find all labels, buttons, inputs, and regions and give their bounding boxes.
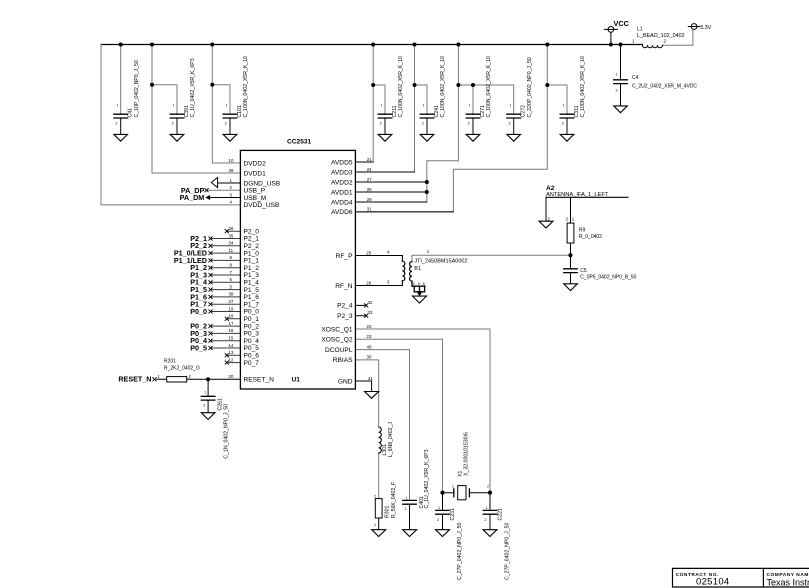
- svg-text:RESET_N: RESET_N: [118, 375, 151, 384]
- svg-text:P1_3: P1_3: [244, 272, 260, 279]
- wire AVDD6 net (rail to pin 31): [355, 45, 547, 212]
- ground C241: [420, 134, 434, 141]
- balun B1 left winding: [402, 261, 404, 281]
- svg-text:1: 1: [204, 391, 206, 395]
- svg-text:R_2K2_0402_G: R_2K2_0402_G: [164, 365, 200, 371]
- svg-text:025104: 025104: [696, 577, 730, 588]
- cap pin numbers top row: [116, 104, 565, 126]
- svg-text:L_6N8_0402_J: L_6N8_0402_J: [388, 422, 394, 458]
- ground C101: [223, 134, 237, 141]
- x-flag P0_1: [225, 317, 228, 320]
- svg-text:1: 1: [117, 104, 119, 108]
- svg-text:28: 28: [367, 187, 372, 192]
- svg-text:1: 1: [173, 104, 175, 108]
- svg-text:P2_3: P2_3: [337, 313, 353, 320]
- ground R301: [372, 530, 386, 537]
- svg-text:C241: C241: [434, 105, 440, 118]
- svg-text:P1_5: P1_5: [244, 287, 260, 294]
- R301 pin numbers: [374, 495, 376, 528]
- svg-text:USB_P: USB_P: [244, 188, 266, 195]
- wire C241 tap: [415, 85, 428, 114]
- svg-text:C_2U2_0402_X5R_M_4VDC: C_2U2_0402_X5R_M_4VDC: [632, 84, 697, 90]
- U1 left pin numbers: [229, 158, 234, 379]
- svg-text:2: 2: [468, 122, 470, 126]
- svg-text:C_1N_0402_NP0_J_50: C_1N_0402_NP0_J_50: [224, 404, 230, 459]
- ground U1 GND pin: [365, 392, 379, 399]
- svg-text:VCC: VCC: [614, 19, 630, 28]
- svg-text:30: 30: [367, 355, 372, 360]
- U1 right pin names: [321, 159, 353, 385]
- svg-text:11: 11: [229, 248, 234, 253]
- resistor R301: [375, 499, 382, 518]
- svg-text:1: 1: [510, 104, 512, 108]
- svg-text:PA_DM: PA_DM: [180, 193, 205, 202]
- svg-text:R301: R301: [385, 505, 391, 518]
- svg-text:R201: R201: [164, 358, 176, 364]
- ground C231: [436, 530, 450, 537]
- svg-text:1: 1: [381, 104, 383, 108]
- svg-text:X_32.000101530I6: X_32.000101530I6: [464, 432, 470, 476]
- svg-text:19: 19: [229, 306, 234, 311]
- svg-text:C_100N_0402_X5R_K_10: C_100N_0402_X5R_K_10: [486, 56, 492, 118]
- ground balun: [413, 296, 427, 303]
- svg-text:DVDD2: DVDD2: [244, 160, 267, 167]
- capacitor C101 plates: [223, 114, 237, 118]
- svg-text:C5: C5: [580, 268, 587, 274]
- svg-text:2: 2: [380, 122, 382, 126]
- capacitor C241 plates: [420, 114, 434, 118]
- svg-text:2: 2: [225, 122, 227, 126]
- wire AVDD2/AVDD1/AVDD4 net (rail to pins 27,28,29): [355, 45, 458, 203]
- wire C101 tap: [212, 85, 230, 115]
- svg-text:GND: GND: [338, 378, 353, 385]
- wire DVDD2 net (rail to pin 10): [212, 45, 240, 164]
- svg-text:2: 2: [616, 89, 618, 93]
- svg-text:DVDD_USB: DVDD_USB: [244, 202, 281, 209]
- svg-text:12: 12: [229, 357, 234, 362]
- capacitor C41 plates: [114, 114, 128, 118]
- svg-text:P0_7: P0_7: [244, 360, 260, 367]
- svg-text:R_56K_0402_F: R_56K_0402_F: [391, 482, 397, 518]
- svg-text:5: 5: [418, 282, 420, 286]
- wire DVDD1 net (rail to pin 39): [152, 45, 240, 174]
- svg-text:1: 1: [486, 506, 488, 510]
- svg-text:C221: C221: [498, 508, 504, 521]
- wire C261 stem: [207, 379, 209, 396]
- balun B1 right winding: [410, 262, 412, 282]
- port triangle DGND_USB: [211, 177, 217, 187]
- junction dot RESET_N: [206, 377, 210, 381]
- junction dots cap taps: [150, 83, 549, 87]
- balun B1 ground comb (pins 2,5,6): [412, 281, 425, 296]
- svg-text:RESET_N: RESET_N: [244, 377, 275, 384]
- svg-text:18: 18: [229, 314, 234, 319]
- svg-text:JTI_2450BM15A0002: JTI_2450BM15A0002: [414, 258, 467, 264]
- IC U1 CC2531 body: [240, 150, 355, 389]
- ground C221: [483, 530, 497, 537]
- svg-text:1: 1: [374, 523, 376, 527]
- svg-text:P0_5: P0_5: [190, 343, 207, 352]
- wire A2 pin 2 to ground: [545, 197, 547, 221]
- C261 pin numbers: [203, 391, 206, 408]
- svg-text:CC2531: CC2531: [287, 139, 312, 146]
- wire RF_N to balun: [355, 281, 402, 286]
- title block frame: [673, 568, 809, 587]
- crystal X1 plates: [454, 489, 470, 497]
- wire XOSC_Q2 net: [355, 339, 442, 492]
- wire C4 stem: [620, 45, 622, 80]
- svg-text:27: 27: [367, 177, 372, 182]
- C231 pin numbers: [437, 506, 440, 522]
- svg-text:2: 2: [203, 404, 205, 408]
- wire PA_DM net (to pin 3 USB_M): [210, 197, 241, 199]
- X1 pin numbers: [452, 485, 489, 489]
- capacitor C272 plates: [507, 114, 521, 118]
- svg-text:C272: C272: [521, 105, 527, 118]
- junction balun comb: [418, 291, 422, 295]
- balun pin numbers: [387, 249, 430, 285]
- svg-text:ANTENNA_IFA_1_LEFT: ANTENNA_IFA_1_LEFT: [546, 192, 609, 198]
- svg-text:R_0_0402: R_0_0402: [579, 234, 602, 240]
- junction dots AVDD stair: [425, 180, 429, 194]
- svg-text:1: 1: [452, 485, 454, 489]
- ground C5: [564, 284, 578, 291]
- ground C261: [201, 413, 215, 420]
- wire RBIAS net: [355, 360, 378, 427]
- svg-text:14: 14: [229, 343, 234, 348]
- capacitor C231 plates: [436, 510, 450, 514]
- svg-text:1: 1: [438, 506, 440, 510]
- wire C271 C272 tap: [458, 85, 513, 114]
- C4 pin numbers: [616, 73, 618, 93]
- wire R301 to ground: [378, 518, 380, 530]
- wire RF_P to balun: [355, 256, 402, 262]
- wire C311 tap: [547, 85, 567, 114]
- capacitor C401 plates: [403, 500, 417, 504]
- U1 left pin names: [244, 160, 281, 383]
- svg-text:2: 2: [509, 122, 511, 126]
- svg-text:P0_0: P0_0: [190, 307, 207, 316]
- U1 left pin stubs: [211, 231, 241, 362]
- U1 right pin stubs (AVDD group): [355, 162, 453, 212]
- wire C231 to ground: [442, 514, 444, 530]
- resistor R9: [567, 223, 574, 243]
- svg-text:P2_0: P2_0: [244, 228, 260, 235]
- balun comb pin numbers 2 5 6: [413, 282, 425, 286]
- wire L1 to 3.3V node: [663, 29, 693, 45]
- svg-text:C231: C231: [450, 508, 456, 521]
- svg-text:24: 24: [367, 167, 372, 172]
- svg-text:C311: C311: [574, 105, 580, 117]
- svg-text:15: 15: [229, 336, 234, 341]
- U1 right pin stubs P2_4 P2_3: [355, 305, 366, 315]
- svg-text:C_220P_0402_NP0_J_50: C_220P_0402_NP0_J_50: [527, 57, 533, 117]
- capacitor C391 plates: [170, 114, 184, 118]
- svg-text:C_27P_0402_NP0_J_50: C_27P_0402_NP0_J_50: [505, 522, 511, 580]
- capacitor C311 plates: [560, 114, 574, 118]
- resistor R201: [167, 377, 187, 382]
- svg-text:XOSC_Q1: XOSC_Q1: [321, 326, 352, 333]
- svg-text:C_100N_0402_X5R_K_10: C_100N_0402_X5R_K_10: [398, 56, 404, 118]
- wire DCOUPL net: [355, 350, 409, 501]
- wire R9 to C5 node: [570, 243, 572, 269]
- wire AVDD3 net (rail to pin 24): [355, 45, 414, 173]
- svg-text:34: 34: [229, 241, 234, 246]
- svg-text:21: 21: [367, 157, 372, 162]
- wire RBIAS L301 to R301: [378, 453, 380, 499]
- svg-text:1: 1: [226, 104, 228, 108]
- junction dot antenna node: [568, 253, 572, 257]
- svg-text:U1: U1: [292, 376, 301, 383]
- capacitor C211 plates: [378, 114, 392, 118]
- ground C391: [170, 134, 184, 141]
- wire GND pin 41: [355, 381, 371, 392]
- svg-text:2: 2: [487, 485, 489, 489]
- svg-text:P0_0: P0_0: [244, 309, 260, 316]
- wire C261 to ground: [207, 400, 209, 413]
- ground C311: [560, 134, 574, 141]
- C401 pin numbers: [405, 497, 408, 512]
- U1 right pin numbers: [366, 157, 373, 381]
- svg-text:10: 10: [229, 158, 234, 163]
- L1 pin numbers: [632, 39, 667, 44]
- svg-text:38: 38: [229, 292, 234, 297]
- svg-text:P1_7: P1_7: [244, 301, 260, 308]
- wire RESET_N net: [157, 378, 241, 380]
- svg-text:C_1U_0402_X5R_K_6P3: C_1U_0402_X5R_K_6P3: [424, 449, 430, 508]
- svg-text:X1: X1: [458, 471, 464, 477]
- svg-text:C_27P_0402_NP0_J_50: C_27P_0402_NP0_J_50: [457, 522, 463, 580]
- wire C221 to ground: [489, 514, 491, 530]
- wire C211 tap: [373, 85, 385, 114]
- x-flag P2_0: [225, 230, 228, 233]
- svg-text:P1_4: P1_4: [244, 280, 260, 287]
- svg-text:AVDD6: AVDD6: [331, 209, 353, 216]
- wire DVDD_USB net (rail to pin 4): [101, 45, 240, 205]
- svg-text:C41: C41: [128, 108, 134, 118]
- svg-text:C_100N_0402_X5R_K_10: C_100N_0402_X5R_K_10: [243, 56, 249, 118]
- svg-text:C211: C211: [392, 105, 398, 117]
- svg-text:1: 1: [423, 104, 425, 108]
- wire AVDD1 pin 28 stub: [355, 191, 426, 193]
- capacitor C4 plates: [614, 80, 628, 84]
- svg-text:6: 6: [423, 282, 425, 286]
- svg-text:C_1U_0402_X5R_K_6P3: C_1U_0402_X5R_K_6P3: [190, 58, 196, 117]
- x-flags left labeled pins: [209, 237, 212, 350]
- inductor L301: [379, 427, 382, 453]
- ground C41: [114, 134, 128, 141]
- wire DGND_USB port stub (pin 1): [218, 182, 241, 184]
- svg-text:3.3V: 3.3V: [700, 25, 712, 31]
- net labels left externals: [174, 234, 207, 353]
- svg-text:C_0P5_0402_NP0_B_50: C_0P5_0402_NP0_B_50: [580, 274, 636, 280]
- inductor L1: [643, 45, 663, 48]
- wire antenna feed drop (A2 pin 1 to R9): [570, 197, 572, 223]
- ground C4: [614, 106, 628, 113]
- capacitor C261 plates: [201, 396, 215, 400]
- svg-text:C391: C391: [184, 105, 190, 118]
- svg-text:22: 22: [367, 324, 372, 329]
- svg-text:26: 26: [366, 280, 371, 285]
- wire crystal left to C231: [443, 493, 454, 511]
- svg-text:33: 33: [368, 310, 373, 315]
- svg-text:2: 2: [485, 518, 487, 522]
- wire VCC symbol stem: [610, 32, 612, 44]
- svg-text:1: 1: [469, 104, 471, 108]
- svg-text:39: 39: [229, 168, 234, 173]
- svg-text:L301: L301: [382, 444, 388, 456]
- svg-text:USB_M: USB_M: [244, 195, 267, 202]
- capacitor C5 plates: [564, 269, 578, 273]
- svg-text:AVDD2: AVDD2: [331, 179, 353, 186]
- A2 pin numbers: [548, 217, 575, 222]
- svg-text:DCOUPL: DCOUPL: [325, 347, 353, 354]
- svg-text:C_100N_0402_X5R_K_10: C_100N_0402_X5R_K_10: [580, 56, 586, 118]
- svg-text:1: 1: [616, 73, 618, 77]
- svg-text:C261: C261: [218, 398, 224, 411]
- antenna A2 line: [546, 196, 628, 198]
- svg-text:P2_1: P2_1: [244, 236, 260, 243]
- svg-text:2: 2: [116, 122, 118, 126]
- svg-text:RF_N: RF_N: [335, 283, 352, 290]
- ground C401: [403, 530, 417, 537]
- svg-text:32: 32: [368, 300, 373, 305]
- svg-text:23: 23: [367, 334, 372, 339]
- wire C5 to ground: [570, 273, 572, 284]
- ground C272: [507, 134, 521, 141]
- wire AVDD5 net (rail to pin 21): [355, 45, 373, 163]
- wire balun output (pin 1) to antenna node: [412, 255, 571, 261]
- wire C401 to ground: [409, 504, 411, 530]
- svg-text:Texas Instruments: Texas Instruments: [767, 578, 809, 588]
- wire C4 to ground: [620, 84, 622, 106]
- x-flag P0_6: [225, 354, 228, 357]
- svg-text:31: 31: [367, 207, 372, 212]
- capacitor C221 plates: [483, 510, 497, 514]
- PA_DM arrow: [206, 196, 210, 200]
- wire C271 drop: [472, 85, 474, 114]
- wire PA_DP net (to pin 2 USB_P): [208, 189, 241, 191]
- svg-text:29: 29: [367, 197, 372, 202]
- junction dots top rail: [119, 43, 623, 47]
- svg-text:36: 36: [229, 226, 234, 231]
- svg-text:40: 40: [367, 344, 372, 349]
- svg-text:L1: L1: [637, 26, 643, 32]
- svg-text:P1_1: P1_1: [244, 258, 260, 265]
- wire C41 stem: [120, 45, 122, 115]
- svg-text:L_BEAD_102_0402: L_BEAD_102_0402: [637, 33, 685, 39]
- svg-text:XOSC_Q2: XOSC_Q2: [321, 337, 352, 344]
- svg-text:RBIAS: RBIAS: [333, 357, 353, 364]
- svg-text:41: 41: [368, 376, 373, 381]
- svg-text:2: 2: [422, 122, 424, 126]
- svg-text:1: 1: [406, 497, 408, 501]
- crystal X1 body: [458, 486, 466, 500]
- svg-text:AVDD1: AVDD1: [331, 189, 353, 196]
- svg-text:35: 35: [229, 233, 234, 238]
- svg-text:P1_6: P1_6: [244, 294, 260, 301]
- svg-text:2: 2: [172, 122, 174, 126]
- svg-text:P0_1: P0_1: [244, 316, 260, 323]
- svg-text:2: 2: [562, 122, 564, 126]
- svg-text:1: 1: [563, 104, 565, 108]
- svg-text:P0_4: P0_4: [244, 338, 260, 345]
- x-flag PA_DP: [205, 189, 208, 192]
- svg-text:13: 13: [229, 350, 234, 355]
- svg-text:P0_2: P0_2: [244, 323, 260, 330]
- svg-text:C4: C4: [632, 75, 639, 81]
- svg-text:P2_2: P2_2: [244, 243, 260, 250]
- node 3.3V symbol: [688, 24, 700, 30]
- svg-text:C271: C271: [480, 105, 486, 118]
- wire top caps to grounds: [121, 118, 567, 134]
- VCC symbol: [604, 27, 617, 33]
- svg-text:A2: A2: [546, 185, 555, 192]
- svg-text:2: 2: [413, 282, 415, 286]
- svg-text:R9: R9: [579, 228, 586, 234]
- svg-text:P1_0: P1_0: [244, 250, 260, 257]
- svg-text:25: 25: [366, 250, 371, 255]
- svg-text:AVDD3: AVDD3: [331, 169, 353, 176]
- svg-text:2: 2: [437, 518, 439, 522]
- x-flag RESET_N: [153, 378, 156, 381]
- wire crystal right to C221: [469, 493, 490, 511]
- svg-text:P0_5: P0_5: [244, 345, 260, 352]
- svg-text:DGND_USB: DGND_USB: [244, 180, 281, 187]
- svg-text:DVDD1: DVDD1: [244, 170, 267, 177]
- svg-text:B1: B1: [414, 266, 421, 272]
- svg-text:AVDD4: AVDD4: [331, 199, 353, 206]
- svg-text:RF_P: RF_P: [336, 253, 353, 260]
- capacitor C271 plates: [466, 114, 480, 118]
- svg-text:P2_4: P2_4: [337, 303, 353, 310]
- svg-text:2: 2: [374, 495, 376, 499]
- svg-text:P1_2: P1_2: [244, 265, 260, 272]
- wire AVDD2 pin 27 stub: [355, 181, 426, 183]
- ground A2 pin 2: [539, 221, 553, 228]
- wire VCC top power rail: [101, 44, 643, 46]
- svg-text:20: 20: [229, 374, 234, 379]
- x-flags P2_4 P2_3 right: [365, 304, 368, 318]
- wire C391 tap: [152, 85, 177, 115]
- R201 pin numbers: [158, 374, 192, 379]
- wire XOSC_Q1 net: [355, 329, 490, 493]
- svg-text:17: 17: [229, 321, 234, 326]
- svg-text:C_10P_0402_NP0_J_50: C_10P_0402_NP0_J_50: [134, 60, 140, 118]
- svg-text:P0_3: P0_3: [244, 331, 260, 338]
- ground C271: [466, 134, 480, 141]
- x-flag P0_7: [225, 361, 228, 364]
- junction dots crystal: [440, 491, 492, 495]
- C221 pin numbers: [485, 506, 488, 522]
- svg-text:AVDD5: AVDD5: [331, 159, 353, 166]
- ground C211: [378, 134, 392, 141]
- svg-text:C_100N_0402_X5R_K_10: C_100N_0402_X5R_K_10: [440, 56, 446, 118]
- svg-text:2: 2: [405, 507, 407, 511]
- svg-text:16: 16: [229, 328, 234, 333]
- svg-text:P0_6: P0_6: [244, 353, 260, 360]
- svg-text:C101: C101: [237, 105, 243, 118]
- svg-text:37: 37: [229, 299, 234, 304]
